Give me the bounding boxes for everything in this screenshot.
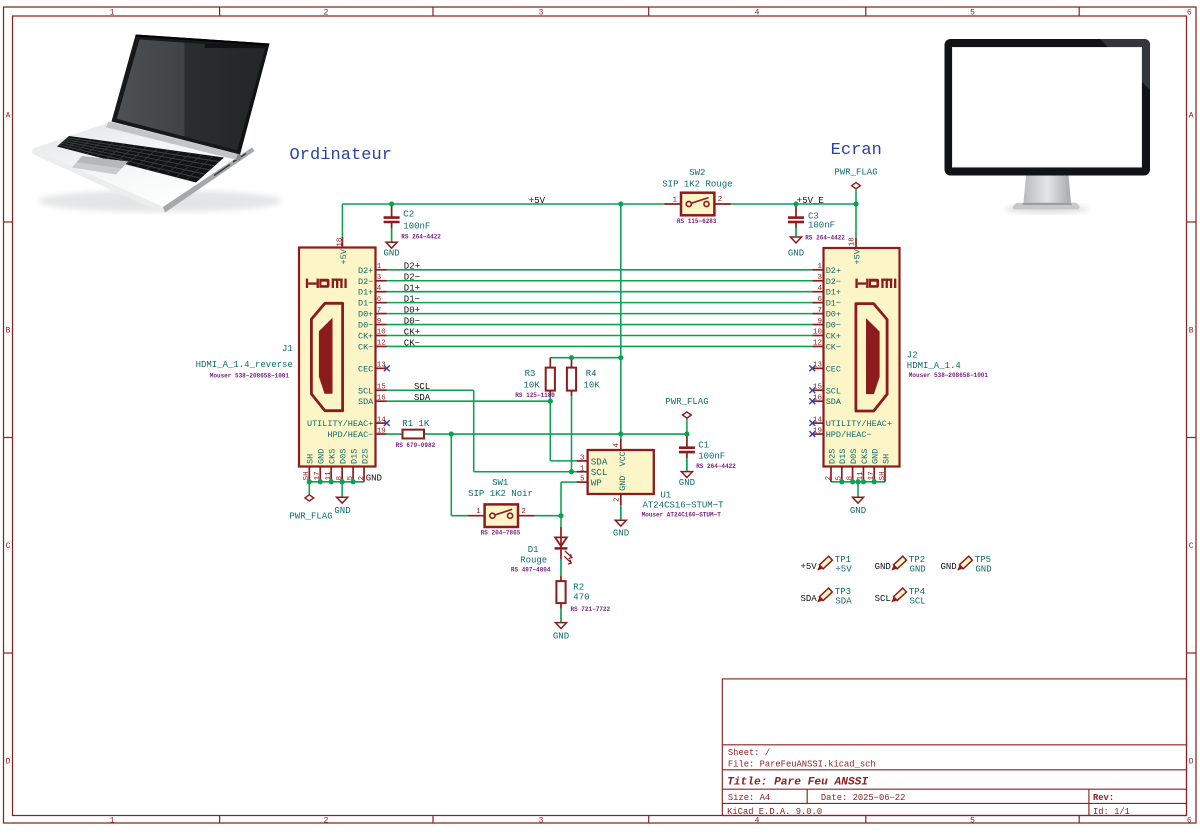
svg-text:U1: U1 [660,491,671,501]
svg-text:5: 5 [580,476,585,484]
svg-text:SIP 1K2 Noir: SIP 1K2 Noir [468,489,533,499]
svg-text:D1S: D1S [838,449,848,464]
svg-text:GND: GND [613,528,629,538]
svg-text:J2: J2 [907,350,918,360]
svg-text:D1+: D1+ [358,288,373,298]
svg-text:D1−: D1− [404,294,420,304]
svg-text:RS 115−6283: RS 115−6283 [677,218,717,225]
svg-text:Size: A4: Size: A4 [728,793,770,803]
svg-text:D0+: D0+ [358,310,373,320]
svg-text:RS 204−7865: RS 204−7865 [481,530,521,537]
svg-text:TP1: TP1 [835,555,851,565]
svg-text:+5V: +5V [339,248,349,264]
svg-text:RS 264−4422: RS 264−4422 [401,233,441,240]
svg-text:GND: GND [618,476,628,491]
svg-text:10K: 10K [583,381,600,391]
svg-text:TP5: TP5 [975,555,991,565]
svg-text:RS 497−4804: RS 497−4804 [511,567,551,574]
svg-text:Sheet: /: Sheet: / [728,748,770,758]
svg-text:R4: R4 [586,369,597,379]
svg-text:PWR_FLAG: PWR_FLAG [665,397,708,407]
svg-text:R2: R2 [573,583,584,593]
svg-text:100nF: 100nF [808,220,835,230]
svg-text:D0+: D0+ [826,310,841,320]
svg-text:18: 18 [849,237,857,246]
svg-text:5: 5 [970,816,975,825]
svg-text:D2+: D2+ [826,266,841,276]
svg-text:12: 12 [377,340,386,348]
svg-text:CK−: CK− [826,342,841,352]
svg-text:HPD/HEAC−: HPD/HEAC− [327,430,373,440]
svg-text:SCL: SCL [826,386,841,396]
svg-text:1: 1 [672,196,677,204]
svg-text:2: 2 [324,8,329,17]
svg-text:SCL: SCL [358,386,373,396]
svg-text:100nF: 100nF [403,221,430,231]
svg-text:6: 6 [1187,8,1192,17]
svg-text:CK+: CK+ [826,332,841,342]
svg-text:1: 1 [476,508,481,516]
svg-text:SW1: SW1 [492,478,508,488]
svg-text:SH: SH [303,471,311,480]
svg-text:R1 1K: R1 1K [402,419,430,429]
svg-text:CK+: CK+ [404,327,420,337]
svg-text:D1: D1 [528,545,539,555]
svg-text:+5V_E: +5V_E [797,196,824,206]
svg-text:470: 470 [573,592,589,602]
svg-text:GND: GND [383,248,399,258]
svg-text:Date: 2025−06−22: Date: 2025−06−22 [821,793,905,803]
svg-text:17: 17 [314,471,322,480]
svg-text:RS 125−1180: RS 125−1180 [515,392,555,399]
svg-text:5: 5 [970,8,975,17]
svg-text:D1S: D1S [350,449,360,464]
svg-text:SH: SH [306,454,316,464]
svg-text:D2+: D2+ [404,262,420,272]
svg-text:10: 10 [377,329,387,337]
svg-text:+5V: +5V [853,248,863,264]
svg-text:D2−: D2− [404,273,420,283]
svg-text:1: 1 [377,263,382,271]
svg-text:2: 2 [718,196,723,204]
svg-text:9: 9 [377,318,382,326]
svg-text:6: 6 [377,296,382,304]
svg-text:Mouser 538−208658−1001: Mouser 538−208658−1001 [909,372,989,379]
svg-text:WP: WP [591,478,603,489]
svg-text:KiCad E.D.A. 9.0.0: KiCad E.D.A. 9.0.0 [727,807,822,817]
svg-text:HPD/HEAC−: HPD/HEAC− [826,430,872,440]
svg-text:GND: GND [553,632,569,642]
svg-text:R3: R3 [525,369,536,379]
svg-text:4: 4 [817,285,822,293]
svg-text:SW2: SW2 [689,168,705,178]
svg-text:+5V: +5V [800,562,817,572]
svg-text:2: 2 [358,476,366,481]
svg-text:SCL: SCL [875,594,891,604]
svg-text:10: 10 [813,329,823,337]
svg-text:D1+: D1+ [826,288,841,298]
svg-text:SDA: SDA [835,596,852,606]
svg-text:SH: SH [879,471,887,480]
svg-text:3: 3 [580,455,585,463]
svg-text:SCL: SCL [414,382,430,392]
svg-text:Mouser 538−208658−1001: Mouser 538−208658−1001 [210,372,290,379]
svg-text:B: B [6,327,11,336]
svg-text:D0S: D0S [849,449,859,464]
svg-text:D2−: D2− [358,277,373,287]
svg-text:17: 17 [868,471,876,480]
svg-text:CKS: CKS [860,449,870,464]
svg-text:TP2: TP2 [909,555,925,565]
svg-text:C1: C1 [698,441,709,451]
svg-text:HDMI_A_1.4_reverse: HDMI_A_1.4_reverse [196,360,293,370]
svg-text:SDA: SDA [800,594,817,604]
svg-text:D0−: D0− [826,321,841,331]
svg-text:18: 18 [336,238,344,247]
svg-text:Rev:: Rev: [1093,793,1114,803]
svg-text:1: 1 [817,263,822,271]
svg-text:C: C [6,542,11,551]
svg-text:7: 7 [817,307,822,315]
svg-text:D2S: D2S [360,449,370,464]
svg-text:D0S: D0S [339,449,349,464]
svg-text:6: 6 [817,296,822,304]
svg-text:4: 4 [613,443,621,448]
svg-text:2: 2 [613,497,621,502]
svg-text:J1: J1 [282,344,293,354]
svg-text:CEC: CEC [826,364,841,374]
svg-text:6: 6 [1187,816,1192,825]
svg-text:SDA: SDA [591,456,608,467]
svg-text:10K: 10K [523,381,540,391]
svg-text:A: A [6,112,11,121]
svg-text:GND: GND [317,449,327,464]
svg-text:D2S: D2S [827,449,837,464]
svg-text:PWR_FLAG: PWR_FLAG [834,168,877,178]
svg-text:D1−: D1− [826,299,841,309]
svg-text:HDMI_A_1.4: HDMI_A_1.4 [907,361,961,371]
svg-text:3: 3 [539,816,544,825]
svg-text:GND: GND [679,478,695,488]
svg-text:CK−: CK− [404,338,420,348]
svg-text:D0+: D0+ [404,305,420,315]
svg-text:GND: GND [975,565,991,575]
svg-text:1: 1 [580,465,585,473]
svg-text:UTILITY/HEAC+: UTILITY/HEAC+ [826,419,892,429]
svg-text:19: 19 [377,427,386,435]
svg-text:11: 11 [325,471,333,481]
svg-text:D: D [1189,758,1194,767]
svg-text:SCL: SCL [910,596,926,606]
svg-text:11: 11 [857,471,865,481]
svg-text:RS 264−4422: RS 264−4422 [696,463,736,470]
svg-text:2: 2 [825,476,833,481]
svg-text:GND: GND [910,565,926,575]
svg-text:CKS: CKS [328,449,338,464]
svg-text:CK−: CK− [358,342,373,352]
svg-text:Mouser AT24C160−STUM−T: Mouser AT24C160−STUM−T [642,511,722,518]
svg-text:TP4: TP4 [909,587,925,597]
svg-text:D0−: D0− [404,316,420,326]
svg-text:Id: 1/1: Id: 1/1 [1093,807,1130,817]
svg-text:RS 679−0982: RS 679−0982 [396,442,436,449]
svg-text:2: 2 [521,508,526,516]
svg-text:C: C [1189,542,1194,551]
svg-text:3: 3 [817,274,822,282]
svg-text:TP3: TP3 [835,587,851,597]
svg-text:File: PareFeuANSSI.kicad_sch: File: PareFeuANSSI.kicad_sch [728,760,876,770]
svg-text:B: B [1189,327,1194,336]
svg-text:D1−: D1− [358,299,373,309]
svg-text:7: 7 [377,307,382,315]
svg-text:GND: GND [850,506,866,516]
svg-text:SDA: SDA [826,397,842,407]
svg-text:GND: GND [334,506,350,516]
svg-text:D0−: D0− [358,321,373,331]
svg-text:D2+: D2+ [358,266,373,276]
svg-text:D2−: D2− [826,277,841,287]
svg-text:15: 15 [377,383,387,391]
svg-text:GND: GND [788,249,804,259]
svg-text:12: 12 [813,340,822,348]
svg-text:2: 2 [324,816,329,825]
svg-text:C2: C2 [403,210,414,220]
svg-text:4: 4 [377,285,382,293]
svg-text:D: D [6,758,11,767]
svg-text:GND: GND [940,562,956,572]
svg-text:GND: GND [366,473,382,483]
svg-text:GND: GND [875,562,891,572]
svg-text:Ordinateur: Ordinateur [290,146,393,165]
svg-text:4: 4 [755,8,760,17]
svg-text:100nF: 100nF [698,452,725,462]
svg-text:3: 3 [377,274,382,282]
svg-text:Title: Pare Feu ANSSI: Title: Pare Feu ANSSI [727,777,868,789]
svg-text:RS 721−7722: RS 721−7722 [571,606,611,613]
svg-text:3: 3 [539,8,544,17]
svg-text:D1+: D1+ [404,284,420,294]
svg-text:+5V: +5V [529,196,546,206]
svg-text:4: 4 [755,816,760,825]
svg-text:SDA: SDA [358,397,374,407]
svg-text:16: 16 [377,394,387,402]
svg-text:VCC: VCC [619,451,628,466]
svg-text:RS 264−4422: RS 264−4422 [805,234,845,241]
svg-text:+5V: +5V [835,565,852,575]
svg-text:CK+: CK+ [358,332,373,342]
svg-text:1: 1 [110,816,115,825]
svg-text:SH: SH [881,454,891,464]
svg-text:1: 1 [110,8,115,17]
svg-text:9: 9 [817,318,822,326]
svg-text:UTILITY/HEAC+: UTILITY/HEAC+ [307,419,373,429]
svg-text:CEC: CEC [358,364,373,374]
svg-text:GND: GND [871,449,881,464]
svg-text:Ecran: Ecran [831,141,882,160]
svg-text:A: A [1189,112,1194,121]
svg-text:SIP 1K2 Rouge: SIP 1K2 Rouge [662,179,732,189]
svg-text:AT24CS16−STUM−T: AT24CS16−STUM−T [643,501,725,511]
svg-text:SDA: SDA [414,393,431,403]
svg-text:Rouge: Rouge [520,555,547,565]
svg-text:SCL: SCL [591,467,608,478]
svg-text:PWR_FLAG: PWR_FLAG [289,511,332,521]
